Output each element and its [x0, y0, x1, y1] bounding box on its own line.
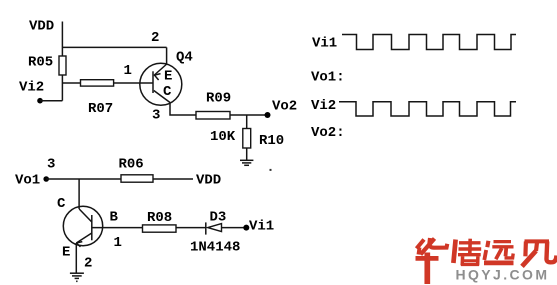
- svg-text:Vi2: Vi2: [311, 98, 336, 114]
- waveform Vi2 square wave: [339, 102, 516, 116]
- svg-text:2: 2: [84, 256, 92, 272]
- diode D3: [206, 222, 222, 234]
- wire R08 to D3: [176, 227, 206, 229]
- svg-text:R06: R06: [119, 157, 144, 173]
- node Vi1 terminal dot: [243, 225, 249, 231]
- svg-text:R07: R07: [88, 101, 113, 117]
- resistor R10 body: [243, 129, 251, 149]
- wire D3 to Vi1: [222, 227, 247, 229]
- svg-text:1N4148: 1N4148: [190, 240, 240, 256]
- stray dot mark: [270, 169, 272, 171]
- svg-text:C: C: [163, 84, 172, 100]
- logo char 1 HUA: [416, 238, 448, 284]
- svg-text:Vo2:: Vo2:: [311, 125, 345, 141]
- wire collector lead down from Vo1 rail: [78, 179, 80, 209]
- ground (below Q2 emitter): [70, 273, 84, 278]
- wire Q4 collector lead (pin 3): [170, 103, 196, 116]
- node Vo1 terminal dot: [43, 176, 49, 182]
- svg-text:HQYJ.COM: HQYJ.COM: [456, 267, 550, 283]
- wire Q2 base to R08: [92, 227, 143, 229]
- svg-text:B: B: [110, 210, 119, 226]
- svg-text:Vo2: Vo2: [272, 99, 297, 115]
- svg-text:Vi2: Vi2: [19, 80, 44, 96]
- wire top rail horizontal to pin 2: [62, 46, 166, 48]
- svg-text:Q4: Q4: [176, 50, 193, 66]
- logo Huaqing Yuanjian (red CJK glyphs drawn as strokes): [416, 238, 557, 284]
- svg-text:R09: R09: [206, 91, 231, 107]
- wire R07 to Q4 base: [114, 82, 153, 84]
- svg-text:3: 3: [152, 108, 160, 124]
- transistor Q2 (NPN): [63, 206, 102, 247]
- svg-text:1: 1: [124, 63, 132, 79]
- svg-text:Vo1:: Vo1:: [311, 70, 345, 86]
- wire R09 to Vo2: [230, 114, 268, 116]
- wire Q2 emitter lead: [75, 243, 77, 273]
- svg-text:Vi1: Vi1: [249, 219, 274, 235]
- logo char 2 QING: [453, 239, 481, 266]
- svg-text:E: E: [164, 69, 172, 85]
- resistor R09 body: [196, 112, 230, 120]
- wire VDD vertical lead: [61, 22, 63, 57]
- wire below R05: [61, 75, 63, 101]
- svg-text:C: C: [57, 196, 66, 212]
- svg-text:D3: D3: [210, 210, 227, 226]
- logo char 3 YUAN: [484, 241, 514, 263]
- svg-text:1: 1: [114, 235, 122, 251]
- wire emitter lead vertical (pin 2): [166, 47, 168, 64]
- resistor R06 body: [121, 175, 153, 182]
- ground (below R10): [240, 160, 253, 165]
- node Vo2 terminal dot: [265, 112, 271, 118]
- svg-text:10K: 10K: [210, 129, 236, 145]
- wire R10 to ground: [246, 148, 248, 160]
- svg-text:R05: R05: [28, 55, 53, 71]
- svg-text:R08: R08: [147, 210, 172, 226]
- node Vi2 terminal dot: [37, 98, 43, 104]
- svg-text:Vo1: Vo1: [15, 173, 40, 189]
- waveform Vi1 square wave: [342, 35, 516, 50]
- stray dot mark below ground: [76, 281, 78, 283]
- svg-text:R10: R10: [259, 133, 284, 149]
- wire Vo1 to R06: [46, 178, 121, 180]
- logo char 4 JIAN: [522, 241, 556, 266]
- resistor R07 body: [81, 80, 114, 86]
- wire junction to R07: [62, 82, 80, 84]
- resistor R05 body: [59, 56, 66, 75]
- wire junction down to R10: [246, 115, 248, 129]
- svg-text:Vi1: Vi1: [312, 36, 337, 52]
- wire R06 to VDD: [153, 178, 193, 180]
- svg-text:VDD: VDD: [29, 19, 54, 35]
- svg-text:3: 3: [47, 157, 55, 173]
- resistor R08 body: [143, 225, 177, 232]
- svg-text:E: E: [62, 245, 70, 261]
- svg-text:VDD: VDD: [196, 173, 221, 189]
- svg-text:2: 2: [151, 30, 159, 46]
- transistor Q4 (PNP): [140, 63, 182, 105]
- wire Vi2 stub: [40, 100, 62, 102]
